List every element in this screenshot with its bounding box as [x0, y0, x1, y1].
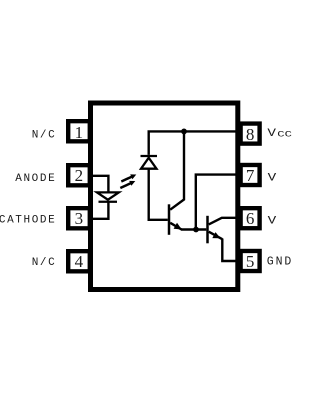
svg-text:6: 6	[246, 209, 255, 228]
transistor Q2 collector to pin6	[209, 218, 238, 225]
svg-text:N/C: N/C	[32, 130, 57, 142]
photodiode D2 triangle	[141, 158, 157, 169]
pin 2 pad	[66, 163, 92, 188]
transistor Q1 base bar	[168, 204, 171, 235]
LED D1 triangle	[97, 192, 119, 199]
wire Q2 emitter to pin5	[222, 239, 238, 262]
svg-text:CC: CC	[277, 129, 292, 139]
transistor Q2 emitter arrowhead	[212, 232, 220, 238]
svg-text:V: V	[268, 172, 277, 184]
pin 8 pad	[239, 121, 262, 145]
wire pin2 to LED anode	[91, 176, 108, 193]
wire photodiode anode to Q1 base	[149, 169, 168, 220]
light arrow upper	[121, 174, 136, 181]
svg-text:4: 4	[75, 252, 84, 271]
svg-text:V: V	[267, 128, 276, 140]
wire Q1 emitter to Q2 base	[181, 228, 206, 230]
svg-text:8: 8	[246, 125, 255, 144]
pin 7 pad	[239, 163, 262, 187]
svg-text:N/C: N/C	[32, 257, 57, 269]
junction dot Q1 emitter / pin7	[193, 227, 199, 233]
pin 5 pad	[239, 249, 262, 273]
junction dot VCC / Q1 collector	[181, 129, 187, 135]
transistor Q1 collector	[170, 131, 184, 209]
svg-text:7: 7	[246, 166, 255, 185]
wire VCC rail from pin8	[149, 131, 238, 155]
svg-text:1: 1	[75, 123, 84, 142]
transistor Q1 emitter arrowhead	[174, 223, 182, 230]
transistor Q2 base bar	[206, 216, 209, 244]
svg-text:5: 5	[246, 252, 255, 271]
wire pin7 to junction	[196, 175, 238, 230]
transistor Q2 emitter	[209, 232, 223, 240]
svg-text:2: 2	[75, 166, 84, 185]
pin 3 pad	[66, 206, 92, 231]
transistor Q1 emitter	[170, 223, 181, 230]
wire LED cathode to pin3	[91, 201, 108, 219]
svg-text:3: 3	[75, 209, 84, 228]
IC package outline U1	[91, 103, 238, 290]
pin 1 pad	[66, 119, 92, 144]
pin 4 pad	[66, 249, 92, 274]
pin 6 pad	[239, 206, 262, 230]
svg-text:V: V	[268, 216, 277, 228]
svg-text:CATHODE: CATHODE	[0, 214, 56, 226]
light arrow lower	[120, 181, 135, 188]
svg-text:ANODE: ANODE	[15, 173, 56, 185]
svg-text:GND: GND	[267, 256, 293, 269]
LED D1 cathode bar	[99, 201, 118, 203]
photodiode D2 cathode bar	[141, 155, 158, 157]
